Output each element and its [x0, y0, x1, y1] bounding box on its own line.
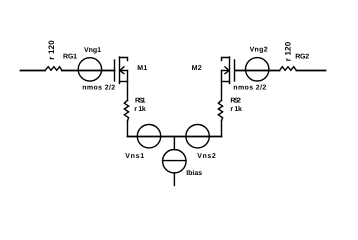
- svg-text:Vng2: Vng2: [250, 46, 268, 53]
- svg-text:RG2: RG2: [295, 54, 309, 61]
- svg-text:Ibias: Ibias: [186, 169, 202, 177]
- svg-text:M1: M1: [137, 65, 147, 72]
- svg-text:nmos 2/2: nmos 2/2: [82, 84, 115, 92]
- svg-text:r 120: r 120: [284, 41, 293, 61]
- svg-text:Vns2: Vns2: [197, 153, 216, 160]
- svg-text:RS2: RS2: [230, 98, 241, 105]
- svg-text:RS1: RS1: [135, 98, 146, 105]
- svg-text:r 120: r 120: [47, 40, 56, 60]
- svg-text:nmos 2/2: nmos 2/2: [233, 84, 266, 92]
- svg-text:Vns1: Vns1: [125, 153, 144, 160]
- svg-text:RG1: RG1: [63, 54, 77, 61]
- svg-text:M2: M2: [192, 65, 202, 72]
- svg-text:r 1k: r 1k: [134, 105, 146, 113]
- svg-text:r 1k: r 1k: [230, 105, 242, 113]
- svg-text:Vng1: Vng1: [84, 47, 101, 54]
